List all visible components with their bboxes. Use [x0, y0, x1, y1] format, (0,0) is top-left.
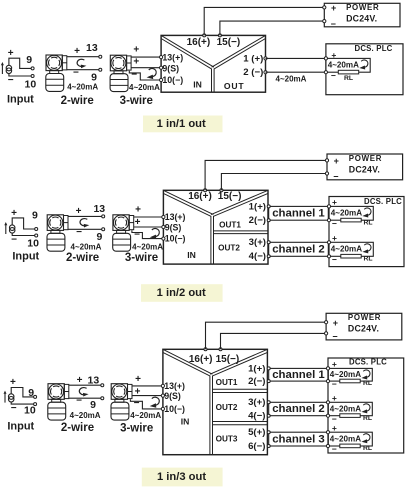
terminal 9 node (2-wire, section 3) — [101, 397, 104, 400]
isolator V divider left arm (section 2) — [163, 190, 213, 214]
input polarity arrow (section 3) — [4, 391, 7, 403]
wire block 16(+) to power + (section 3) — [206, 322, 327, 349]
isolator V divider right arm (section 3) — [210, 349, 267, 374]
svg-text:10(−): 10(−) — [164, 404, 185, 414]
svg-text:3-wire: 3-wire — [120, 422, 153, 434]
svg-text:channel 1: channel 1 — [272, 369, 325, 381]
DCS loop 2 - terminal (section 2) — [327, 255, 330, 258]
input current source (section 1) — [6, 65, 12, 73]
section label 1 in/1 out (section 1) — [143, 116, 223, 133]
svg-text:13: 13 — [86, 42, 98, 54]
terminal 13(+) node (section 1) — [160, 56, 163, 59]
power - terminal (section 2) — [325, 172, 328, 175]
current-direction curved arrow (3-wire loop, section 1) — [147, 68, 157, 79]
isolator V divider left arm (section 1) — [161, 35, 214, 67]
svg-text:1 in/3 out: 1 in/3 out — [157, 471, 206, 483]
svg-text:DCS. PLC: DCS. PLC — [364, 197, 402, 206]
channel 2 left - node (section 2) — [267, 255, 270, 258]
DCS loop 1 + terminal (section 2) — [327, 205, 330, 208]
svg-text:4~20mA: 4~20mA — [330, 370, 361, 379]
svg-text:+: + — [133, 57, 139, 68]
wire input - to terminal 10 (section 3) — [11, 402, 34, 404]
svg-text:+: + — [331, 50, 336, 60]
load resistor RL (DCS loop 1, section 2) — [341, 218, 361, 222]
svg-text:OUT1: OUT1 — [216, 378, 238, 387]
svg-text:3(+): 3(+) — [249, 237, 266, 248]
terminal 13 node (2-wire, section 3) — [101, 384, 104, 387]
DCS loop 2 - terminal (section 3) — [326, 414, 329, 417]
2-wire transmitter icon (section 3) — [48, 384, 69, 420]
svg-text:−: − — [333, 172, 338, 182]
svg-text:DC24V.: DC24V. — [346, 14, 377, 24]
wire 2(-) to DCS - (section 1) — [266, 71, 326, 73]
svg-text:+: + — [135, 374, 141, 385]
channel 1 box (section 2) — [269, 206, 329, 220]
svg-text:15(−): 15(−) — [216, 354, 240, 365]
svg-text:4(−): 4(−) — [249, 251, 266, 262]
input polarity arrow (section 1) — [1, 62, 4, 74]
svg-text:2(−): 2(−) — [248, 376, 265, 387]
svg-text:channel 1: channel 1 — [272, 208, 325, 220]
svg-text:POWER: POWER — [348, 313, 381, 322]
svg-text:2-wire: 2-wire — [66, 252, 99, 264]
OUT compartment divider 1 (section 3) — [213, 388, 268, 390]
DCS. PLC box (section 2) — [329, 197, 404, 267]
isolator block body (section 2) — [163, 190, 268, 264]
svg-text:RL: RL — [363, 445, 372, 452]
DCS 4-20mA loop 1 rectangle (section 1) — [326, 58, 370, 72]
svg-text:+: + — [8, 48, 14, 59]
POWER DC24V box (section 2) — [327, 154, 403, 180]
isolator vertical divider (section 3) — [209, 376, 211, 455]
terminal 16(+) node (section 3) — [204, 348, 207, 351]
terminal 10 node (section 1) — [31, 75, 34, 78]
svg-text:10: 10 — [25, 78, 37, 90]
DCS. PLC box (section 3) — [328, 358, 404, 453]
wire 2-wire + to terminal 13 (section 2) — [68, 215, 102, 217]
svg-text:1 (+): 1 (+) — [243, 53, 263, 64]
terminal 9(S) node (section 3) — [161, 394, 164, 397]
terminal 10 node (section 3) — [34, 403, 37, 406]
svg-text:9: 9 — [32, 210, 38, 222]
current-direction curved arrow (DCS loop 3, section 3) — [361, 434, 370, 444]
svg-text:13(+): 13(+) — [162, 52, 183, 62]
terminal 15(-) node (section 3) — [219, 348, 222, 351]
svg-text:channel 2: channel 2 — [272, 403, 325, 415]
terminal 9 node (2-wire, section 2) — [102, 228, 105, 231]
terminal 9 node (section 2) — [35, 228, 38, 231]
channel 2 box (section 3) — [269, 402, 329, 415]
svg-text:4~20mA: 4~20mA — [328, 61, 359, 70]
terminal 9 node (2-wire, section 1) — [99, 68, 102, 71]
svg-text:13(+): 13(+) — [165, 212, 186, 222]
svg-text:2(−): 2(−) — [249, 215, 266, 226]
wire 3-wire + to block 9(S) (section 1) — [131, 67, 161, 69]
svg-text:6(−): 6(−) — [248, 441, 265, 452]
channel 1 box (section 3) — [269, 368, 329, 381]
svg-text:4~20mA: 4~20mA — [331, 245, 362, 254]
svg-text:+: + — [332, 393, 337, 403]
input current source (section 2) — [9, 225, 15, 233]
svg-text:−: − — [8, 75, 14, 86]
svg-text:+: + — [74, 46, 80, 57]
terminal 9 node (section 3) — [34, 395, 37, 398]
svg-text:9(S): 9(S) — [165, 222, 182, 232]
wire 3-wire + to block 13(+) (section 3) — [132, 385, 163, 387]
DCS loop 1 - terminal (section 3) — [326, 380, 329, 383]
terminal 2 (-) node (section 1) — [264, 71, 267, 74]
load resistor RL (DCS loop 1, section 3) — [340, 379, 360, 383]
OUT compartment divider 1 (section 2) — [214, 230, 269, 232]
svg-text:4~20mA: 4~20mA — [67, 83, 98, 92]
DCS loop 2 + terminal (section 3) — [326, 401, 329, 404]
3-wire transmitter icon (section 3) — [111, 384, 132, 420]
section label 1 in/2 out (section 2) — [141, 284, 223, 302]
wire 3-wire + to block 13(+) (section 1) — [131, 56, 161, 58]
terminal 13 node (2-wire, section 2) — [102, 215, 105, 218]
svg-text:+: + — [11, 208, 17, 219]
svg-text:channel 2: channel 2 — [272, 244, 325, 256]
channel 3 box (section 3) — [269, 432, 329, 446]
svg-text:1(+): 1(+) — [249, 201, 266, 212]
svg-text:+: + — [331, 3, 336, 13]
svg-text:4~20mA: 4~20mA — [70, 411, 101, 420]
input current source (section 3) — [8, 394, 14, 402]
svg-text:+: + — [76, 206, 82, 217]
terminal 9 node (section 1) — [31, 67, 34, 70]
svg-text:+: + — [135, 204, 141, 215]
svg-text:+: + — [77, 375, 83, 386]
terminal 9(S) node (section 1) — [160, 66, 163, 69]
terminal 16(+) node (section 2) — [204, 189, 207, 192]
terminal 10(-) node (section 3) — [161, 407, 164, 410]
2-wire transmitter icon (section 1) — [46, 55, 67, 91]
DCS loop 1 - terminal (section 2) — [327, 219, 330, 222]
svg-text:−: − — [76, 227, 82, 238]
current-direction loop arrow (2-wire loop, section 1) — [77, 59, 86, 68]
svg-text:−: − — [76, 396, 82, 407]
terminal 13(+) node (section 2) — [162, 215, 165, 218]
svg-text:1 in/2 out: 1 in/2 out — [157, 287, 206, 299]
channel 3 left - node (section 3) — [267, 445, 270, 448]
svg-text:Input: Input — [7, 421, 34, 433]
svg-text:9(S): 9(S) — [162, 63, 179, 73]
svg-text:−: − — [332, 379, 337, 389]
svg-text:OUT1: OUT1 — [219, 221, 241, 230]
svg-text:RL: RL — [344, 75, 353, 82]
DCS loop 3 + terminal (section 3) — [326, 431, 329, 434]
svg-text:Input: Input — [7, 93, 34, 105]
svg-text:DC24V.: DC24V. — [348, 324, 379, 334]
svg-text:13: 13 — [93, 203, 105, 215]
DCS. PLC box (section 1) — [326, 44, 403, 95]
svg-text:−: − — [131, 70, 137, 81]
DCS 4-20mA loop 1 rectangle (section 3) — [328, 368, 372, 381]
wire block 15(-) to power - (section 3) — [221, 333, 327, 349]
power - terminal (section 3) — [325, 332, 328, 335]
DCS 4-20mA loop 2 rectangle (section 2) — [329, 242, 373, 256]
terminal 10(-) node (section 2) — [162, 237, 165, 240]
svg-text:POWER: POWER — [349, 154, 382, 163]
current-direction curved arrow (DCS loop 2, section 3) — [361, 404, 370, 414]
svg-text:OUT: OUT — [224, 81, 245, 91]
current-direction loop arrow (2-wire loop, section 2) — [80, 219, 89, 228]
svg-text:DCS. PLC: DCS. PLC — [349, 358, 387, 367]
wire 3-wire + to block 13(+) (section 2) — [134, 216, 164, 218]
wire 3-wire - to block 10(-) (section 2) — [132, 230, 164, 238]
svg-text:16(+): 16(+) — [187, 37, 211, 48]
terminal 16(+) node (section 1) — [203, 34, 206, 37]
svg-text:−: − — [11, 234, 17, 245]
3-wire transmitter icon (section 1) — [110, 55, 131, 91]
power + terminal (section 2) — [325, 159, 328, 162]
svg-text:+: + — [135, 217, 141, 228]
channel 2 box (section 2) — [269, 242, 329, 256]
svg-text:+: + — [332, 423, 337, 433]
svg-text:10: 10 — [27, 237, 39, 249]
svg-text:10(−): 10(−) — [165, 234, 186, 244]
DCS loop 1 + terminal (section 3) — [326, 367, 329, 370]
svg-text:4~20mA: 4~20mA — [71, 243, 102, 252]
svg-text:−: − — [331, 19, 336, 29]
svg-text:10(−): 10(−) — [162, 75, 183, 85]
current-direction curved arrow (DCS loop 1, section 3) — [361, 370, 370, 380]
svg-text:RL: RL — [363, 415, 372, 422]
current-direction curved arrow (DCS loop 2, section 2) — [362, 244, 371, 254]
svg-text:−: − — [332, 255, 337, 265]
channel 2 left + node (section 3) — [267, 401, 270, 404]
svg-text:3-wire: 3-wire — [125, 252, 158, 264]
wire 2-wire + to terminal 13 (section 3) — [69, 384, 101, 386]
terminal 9(S) node (section 2) — [162, 225, 165, 228]
isolator vertical divider (section 1) — [211, 69, 213, 93]
svg-text:13: 13 — [88, 375, 100, 387]
svg-text:IN: IN — [193, 80, 202, 90]
terminal 13(+) node (section 3) — [161, 384, 164, 387]
wire 1(+) to DCS + (section 1) — [266, 57, 326, 59]
current-direction curved arrow (DCS loop 1, section 2) — [362, 208, 371, 218]
svg-text:4~20mA: 4~20mA — [330, 434, 361, 443]
wire block 16(+) to power + (section 1) — [204, 7, 324, 35]
power - terminal (section 1) — [323, 20, 326, 23]
load resistor RL (DCS loop 1, section 1) — [338, 70, 358, 74]
svg-text:4~20mA: 4~20mA — [129, 83, 160, 92]
load resistor RL (DCS loop 3, section 3) — [340, 444, 360, 448]
svg-text:10: 10 — [24, 404, 36, 416]
isolator V divider right arm (section 1) — [212, 35, 266, 67]
svg-text:13(+): 13(+) — [164, 381, 185, 391]
current-direction curved arrow (3-wire loop, section 3) — [150, 397, 160, 408]
terminal 1 (+) node (section 1) — [264, 57, 267, 60]
svg-text:+: + — [332, 197, 337, 207]
wire input + to terminal 9 (section 3) — [11, 388, 34, 397]
svg-text:RL: RL — [363, 380, 372, 387]
channel 1 left + node (section 3) — [267, 367, 270, 370]
channel 1 left + node (section 2) — [267, 205, 270, 208]
svg-text:DC24V.: DC24V. — [349, 164, 380, 174]
svg-text:−: − — [332, 444, 337, 454]
svg-text:9: 9 — [28, 387, 34, 399]
DCS 4-20mA loop 2 rectangle (section 3) — [328, 402, 372, 415]
power + terminal (section 3) — [325, 321, 328, 324]
svg-text:4~20mA: 4~20mA — [132, 243, 163, 252]
svg-text:−: − — [11, 403, 17, 414]
svg-text:RL: RL — [363, 256, 372, 263]
DCS loop 1 + terminal (section 1) — [324, 57, 327, 60]
svg-text:4~20mA: 4~20mA — [130, 411, 161, 420]
svg-text:OUT2: OUT2 — [218, 244, 240, 253]
load resistor RL (DCS loop 2, section 2) — [341, 254, 361, 258]
DCS loop 3 - terminal (section 3) — [326, 444, 329, 447]
wire 2-wire - to terminal 9 (section 1) — [67, 69, 99, 71]
power + terminal (section 1) — [323, 6, 326, 9]
terminal 15(-) node (section 1) — [218, 34, 221, 37]
svg-text:OUT2: OUT2 — [216, 403, 238, 412]
svg-text:Input: Input — [12, 250, 39, 262]
channel 1 left - node (section 2) — [267, 219, 270, 222]
wire 2-wire + to terminal 13 (section 1) — [67, 56, 99, 58]
DCS loop 1 - terminal (section 1) — [324, 71, 327, 74]
svg-text:1(+): 1(+) — [248, 363, 265, 374]
svg-text:16(+): 16(+) — [189, 354, 213, 365]
wire 3-wire + to block 9(S) (section 2) — [134, 226, 164, 228]
terminal 10 node (section 2) — [35, 234, 38, 237]
svg-text:9: 9 — [96, 231, 102, 243]
svg-text:4~20mA: 4~20mA — [330, 404, 361, 413]
svg-text:2-wire: 2-wire — [61, 422, 94, 434]
svg-text:2-wire: 2-wire — [61, 95, 94, 107]
wire block 15(-) to power - (section 2) — [221, 174, 327, 191]
isolator block body (section 1) — [161, 35, 265, 92]
section label 1 in/3 out (section 3) — [142, 468, 223, 487]
svg-text:9: 9 — [26, 54, 32, 66]
svg-text:4~20mA: 4~20mA — [276, 74, 307, 83]
isolator V divider right arm (section 2) — [211, 190, 268, 214]
svg-text:−: − — [134, 398, 140, 409]
svg-text:−: − — [331, 70, 336, 80]
svg-text:1 in/1 out: 1 in/1 out — [157, 118, 206, 130]
wire block 16(+) to power + (section 2) — [205, 160, 327, 190]
DCS 4-20mA loop 3 rectangle (section 3) — [328, 432, 372, 446]
wire input + to terminal 9 (section 2) — [12, 218, 35, 229]
channel 2 left - node (section 3) — [267, 414, 270, 417]
svg-text:+: + — [332, 359, 337, 369]
svg-text:4(−): 4(−) — [248, 411, 265, 422]
channel 1 left - node (section 3) — [267, 380, 270, 383]
terminal 10(-) node (section 1) — [160, 78, 163, 81]
wire 2-wire - to terminal 9 (section 2) — [68, 228, 102, 230]
svg-text:POWER: POWER — [346, 3, 379, 12]
svg-text:+: + — [333, 318, 338, 328]
channel 2 left + node (section 2) — [267, 241, 270, 244]
svg-text:IN: IN — [187, 250, 196, 260]
svg-text:+: + — [135, 387, 141, 398]
wire 3-wire - to block 10(-) (section 3) — [130, 399, 163, 409]
isolator vertical divider (section 2) — [210, 216, 212, 264]
DCS loop 2 + terminal (section 2) — [327, 241, 330, 244]
2-wire transmitter icon (section 2) — [47, 215, 68, 251]
svg-text:+: + — [334, 156, 339, 166]
current-direction curved arrow (3-wire loop, section 2) — [150, 228, 160, 239]
svg-text:15(−): 15(−) — [217, 37, 241, 48]
OUT compartment divider 2 (section 3) — [213, 421, 268, 423]
svg-text:4~20mA: 4~20mA — [331, 209, 362, 218]
svg-text:channel 3: channel 3 — [272, 433, 325, 445]
wire input - to terminal 10 (section 1) — [9, 73, 32, 76]
POWER DC24V box (section 1) — [324, 3, 400, 27]
wire 3-wire - to block 10(-) (section 1) — [129, 71, 161, 80]
svg-text:9: 9 — [90, 399, 96, 411]
3-wire transmitter icon (section 2) — [113, 215, 134, 251]
svg-text:+: + — [133, 45, 139, 56]
svg-text:DCS. PLC: DCS. PLC — [355, 44, 393, 53]
svg-text:IN: IN — [181, 417, 190, 427]
current-direction curved arrow (DCS loop 1, section 1) — [359, 60, 368, 70]
DCS 4-20mA loop 1 rectangle (section 2) — [329, 206, 373, 220]
load resistor RL (DCS loop 2, section 3) — [340, 414, 360, 418]
isolator V divider left arm (section 3) — [163, 349, 213, 374]
isolator block body (section 3) — [163, 349, 268, 454]
svg-text:RL: RL — [363, 220, 372, 227]
current-direction loop arrow (2-wire loop, section 3) — [79, 388, 88, 397]
svg-text:−: − — [332, 219, 337, 229]
wire 3-wire + to block 9(S) (section 3) — [132, 395, 163, 397]
svg-text:−: − — [134, 229, 140, 240]
svg-text:3-wire: 3-wire — [120, 95, 153, 107]
svg-text:−: − — [73, 67, 79, 78]
svg-text:9(S): 9(S) — [164, 391, 181, 401]
wire input - to terminal 10 (section 2) — [12, 233, 35, 236]
svg-text:OUT3: OUT3 — [216, 434, 238, 443]
POWER DC24V box (section 3) — [326, 313, 402, 340]
svg-text:5(+): 5(+) — [248, 427, 265, 438]
svg-text:16(+): 16(+) — [188, 191, 212, 202]
svg-text:−: − — [332, 331, 337, 341]
terminal 13 node (2-wire, section 1) — [99, 55, 102, 58]
channel 3 left + node (section 3) — [267, 431, 270, 434]
svg-text:15(−): 15(−) — [218, 191, 242, 202]
wire block 15(-) to power - (section 1) — [220, 21, 324, 35]
terminal 15(-) node (section 2) — [220, 189, 223, 192]
input polarity arrow (section 2) — [4, 222, 7, 234]
svg-text:3(+): 3(+) — [248, 397, 265, 408]
svg-text:+: + — [332, 233, 337, 243]
svg-text:+: + — [10, 377, 16, 388]
wire 2-wire - to terminal 9 (section 3) — [69, 397, 101, 399]
svg-text:2 (−): 2 (−) — [243, 67, 263, 78]
wire input + to terminal 9 (section 1) — [9, 58, 32, 68]
